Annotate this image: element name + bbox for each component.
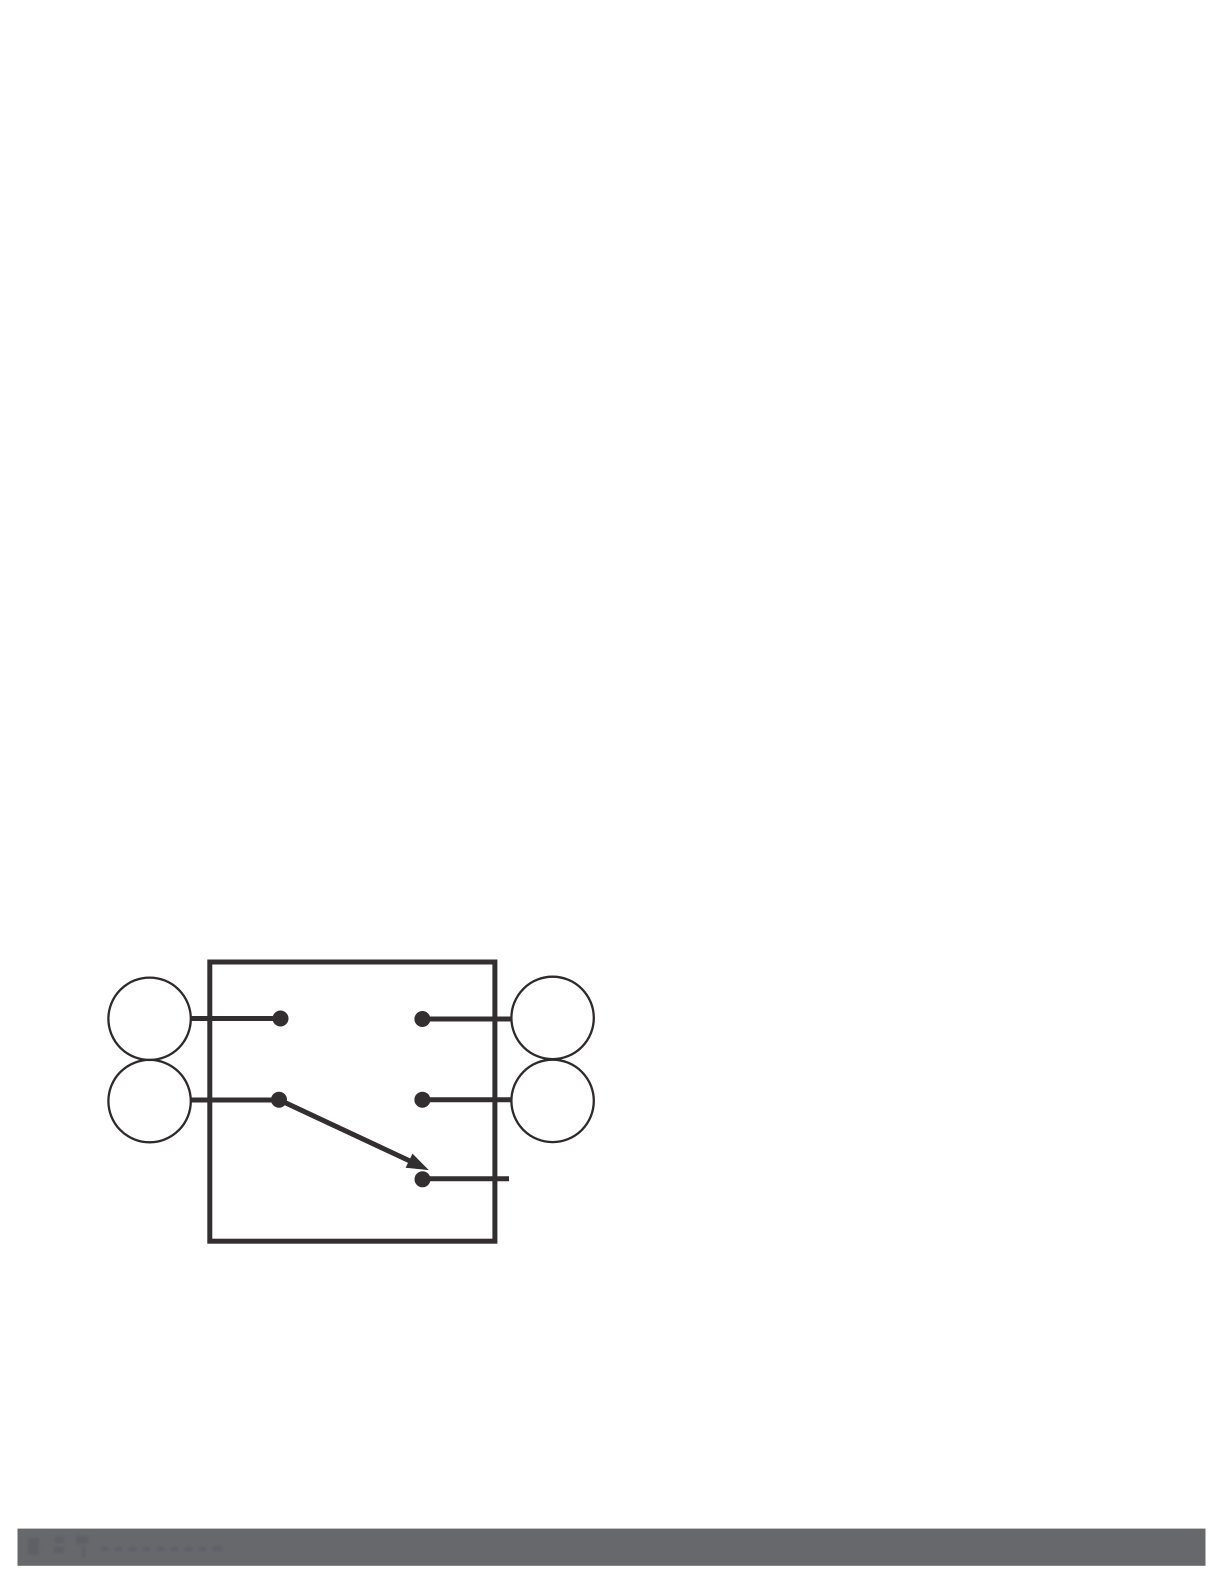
footer bar <box>18 1529 1206 1566</box>
wire: terminal 5 out through box edge <box>423 1176 510 1181</box>
load circle L2 (bottom left) <box>108 1060 190 1142</box>
enclosure box (switch body) <box>210 962 495 1241</box>
switch arm arrow (pole to throw) <box>282 1101 429 1170</box>
wire: terminal 2 to top-right circle <box>422 1017 511 1022</box>
wire: bottom-left circle to terminal 3 <box>192 1098 280 1103</box>
terminal dot 5 (bottom right, throw) <box>415 1171 431 1187</box>
terminal dot 3 (middle left, switch pole) <box>271 1092 287 1108</box>
wire: top-left circle to terminal 1 <box>192 1016 281 1021</box>
terminal dot 2 (top right) <box>414 1011 430 1027</box>
load circle L1 (top left) <box>108 978 190 1060</box>
load circle L4 (bottom right) <box>511 1060 593 1142</box>
wire: terminal 4 to bottom-right circle <box>422 1097 511 1102</box>
load circle L3 (top right) <box>511 977 593 1059</box>
terminal dot 1 (top left) <box>273 1011 289 1027</box>
terminal dot 4 (middle right) <box>414 1092 430 1108</box>
